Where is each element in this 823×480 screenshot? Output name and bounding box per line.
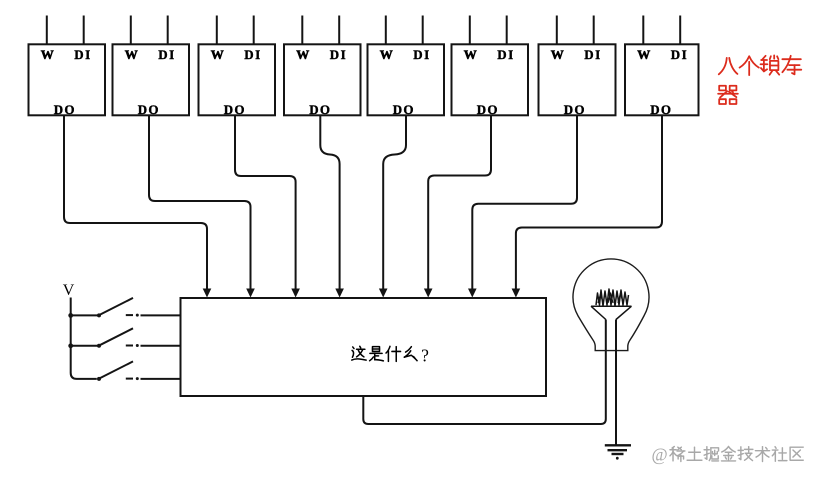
wire: switch S1 to big box xyxy=(141,314,181,316)
svg-text:DI: DI xyxy=(413,47,430,62)
svg-text:?: ? xyxy=(421,345,429,365)
svg-text:DO: DO xyxy=(54,102,76,117)
latch U5 (box) xyxy=(368,44,445,115)
wire: V bus vertical xyxy=(71,298,97,379)
wire latch U1 DO to big-box input 1 xyxy=(64,115,207,290)
latch U5 W input stub wire xyxy=(385,16,387,45)
svg-text:W: W xyxy=(551,47,564,62)
svg-text:V: V xyxy=(63,282,75,299)
svg-text:W: W xyxy=(41,47,54,62)
arrowhead into big box, input 1 xyxy=(203,289,212,298)
svg-text:W: W xyxy=(211,47,224,62)
latch U1 (box) xyxy=(29,44,106,115)
latch U7 DI input stub wire xyxy=(593,16,595,45)
wire latch U5 DO to big-box input 5 xyxy=(383,115,406,290)
wire: switch S3 to big box xyxy=(141,378,181,380)
watermark: @稀土掘金技术社区 xyxy=(652,445,804,465)
lamp DS1 (bulb outline) xyxy=(573,259,649,351)
latch U6 DI input stub wire xyxy=(506,16,508,45)
latch U8 W input stub wire xyxy=(642,16,644,45)
annotation: 八个锁存器 (eight latches) xyxy=(718,55,801,104)
latch U3 (box) xyxy=(199,44,276,115)
svg-text:DO: DO xyxy=(309,102,331,117)
wire latch U4 DO to big-box input 4 xyxy=(320,115,339,290)
arrowhead into big box, input 7 xyxy=(468,289,477,298)
wire latch U2 DO to big-box input 2 xyxy=(149,115,251,290)
svg-text:W: W xyxy=(464,47,477,62)
latch U8 (box) xyxy=(625,44,699,115)
junction dot on V bus xyxy=(68,343,73,348)
svg-text:DI: DI xyxy=(74,47,91,62)
latch U7 (box) xyxy=(539,44,616,115)
wire latch U7 DO to big-box input 7 xyxy=(472,115,577,290)
latch U4 W input stub wire xyxy=(301,16,303,45)
svg-text:DO: DO xyxy=(138,102,160,117)
arrowhead into big box, input 3 xyxy=(291,289,300,298)
latch U3 W input stub wire xyxy=(216,16,218,45)
svg-text:DI: DI xyxy=(244,47,261,62)
switch S3 xyxy=(99,361,134,379)
arrowhead into big box, input 4 xyxy=(335,289,344,298)
latch U1 W input stub wire xyxy=(46,16,48,45)
svg-text:W: W xyxy=(296,47,309,62)
svg-text:DO: DO xyxy=(564,102,586,117)
latch U5 DI input stub wire xyxy=(422,16,424,45)
lamp filament xyxy=(591,289,632,306)
latch U2 (box) xyxy=(113,44,190,115)
latch U2 W input stub wire xyxy=(130,16,132,45)
wire: switch S2 to big box xyxy=(141,345,181,347)
label: 这是什么? xyxy=(352,345,429,365)
svg-text:W: W xyxy=(125,47,138,62)
latch U6 (box) xyxy=(452,44,529,115)
svg-text:DI: DI xyxy=(671,47,688,62)
svg-text:DI: DI xyxy=(330,47,347,62)
latch U4 DI input stub wire xyxy=(338,16,340,45)
arrowhead into big box, input 2 xyxy=(246,289,255,298)
switch S1 xyxy=(71,298,133,316)
latch U4 (box) xyxy=(284,44,361,115)
latch U1 DI input stub wire xyxy=(83,16,85,45)
wire latch U8 DO to big-box input 8 xyxy=(516,115,662,290)
big box (what is this?) xyxy=(181,298,547,396)
arrowhead into big box, input 5 xyxy=(379,289,388,298)
latch U6 W input stub wire xyxy=(469,16,471,45)
svg-text:DO: DO xyxy=(650,102,672,117)
ground symbol xyxy=(605,445,631,454)
svg-text:DO: DO xyxy=(224,102,246,117)
svg-text:DI: DI xyxy=(584,47,601,62)
wire: big box output to lamp xyxy=(363,320,606,425)
latch U7 W input stub wire xyxy=(556,16,558,45)
svg-text:@: @ xyxy=(652,445,668,465)
junction dot on V bus xyxy=(68,313,73,318)
svg-text:DO: DO xyxy=(477,102,499,117)
switch S2 xyxy=(71,328,133,346)
wire latch U6 DO to big-box input 6 xyxy=(428,115,491,290)
svg-text:W: W xyxy=(380,47,393,62)
latch U2 DI input stub wire xyxy=(167,16,169,45)
svg-text:DI: DI xyxy=(158,47,175,62)
lamp filament support wires xyxy=(591,306,632,319)
svg-text:W: W xyxy=(637,47,650,62)
arrowhead into big box, input 6 xyxy=(424,289,433,298)
latch U3 DI input stub wire xyxy=(253,16,255,45)
latch U8 DI input stub wire xyxy=(679,16,681,45)
svg-text:DO: DO xyxy=(393,102,415,117)
wire latch U3 DO to big-box input 3 xyxy=(235,115,296,290)
wire: lamp right lead to ground xyxy=(615,320,617,446)
svg-text:DI: DI xyxy=(497,47,514,62)
arrowhead into big box, input 8 xyxy=(512,289,521,298)
